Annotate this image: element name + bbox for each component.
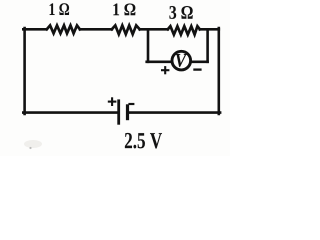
battery minus sign xyxy=(128,103,134,105)
wire bottom right (battery - plate to right corner) xyxy=(128,111,220,114)
voltmeter plus sign xyxy=(161,66,169,74)
wire top segment B (R1 to R2) xyxy=(80,28,112,31)
resistor R2 1-ohm zigzag xyxy=(112,25,140,34)
wire voltmeter branch bottom-right horizontal xyxy=(191,60,208,63)
resistor R1 1-ohm zigzag xyxy=(47,25,80,33)
battery plus sign xyxy=(108,97,117,106)
wire top segment A (left corner to R1) xyxy=(23,28,46,31)
voltmeter V letter xyxy=(176,54,187,67)
battery value label 2.5 V xyxy=(125,133,162,149)
label R1 value 1 ohm xyxy=(50,3,69,15)
label R3 value 3 ohm xyxy=(169,6,192,19)
voltmeter U1 circle xyxy=(172,51,191,70)
faint scan smudge (bottom-left) xyxy=(24,140,42,148)
wire left vertical xyxy=(23,28,26,114)
wire right vertical xyxy=(218,28,221,114)
wire voltmeter branch bottom-left horizontal xyxy=(147,60,172,63)
wire bottom left (corner to battery + plate) xyxy=(23,111,117,114)
label R2 value 1 ohm xyxy=(113,3,135,15)
wire voltmeter branch right vertical xyxy=(206,29,209,62)
voltmeter minus sign xyxy=(193,68,201,70)
wire top segment C (R2 to node, to R3) xyxy=(140,28,168,31)
wire voltmeter branch left vertical xyxy=(147,29,150,62)
wire top segment D (R3 to right corner) xyxy=(200,28,219,31)
battery B1 positive plate (long) xyxy=(117,99,120,124)
resistor R3 3-ohm zigzag xyxy=(168,26,200,34)
battery B1 negative plate (short) xyxy=(126,104,129,120)
